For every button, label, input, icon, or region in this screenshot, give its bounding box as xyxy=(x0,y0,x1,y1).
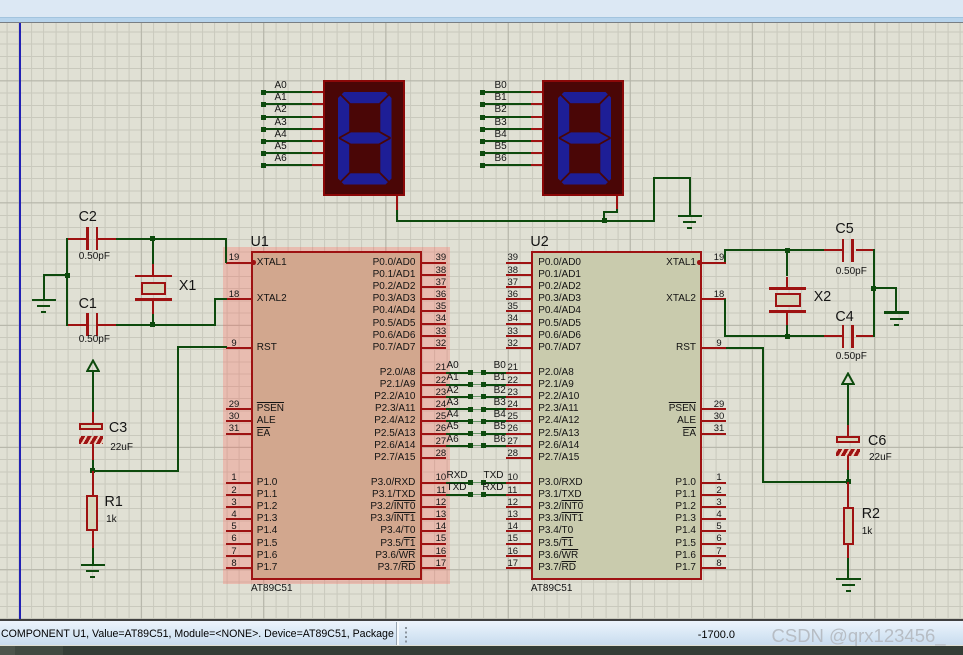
U1 pin 35 xyxy=(421,310,445,312)
node B3 xyxy=(480,397,506,409)
selection highlight around U1 xyxy=(223,247,450,584)
status bar xyxy=(0,621,963,645)
node B5 xyxy=(480,421,506,433)
wire net B2 to DS2 xyxy=(482,116,531,118)
U1 pin 13 xyxy=(421,518,445,520)
U2 pin 23 xyxy=(506,396,530,398)
U2 pin 39 xyxy=(506,262,530,264)
U1 pin 1 xyxy=(226,482,250,484)
U1 pin 9 xyxy=(226,347,250,349)
U2 XTAL1 pin dot xyxy=(697,260,702,265)
U1 pin 17 xyxy=(421,567,445,569)
U1 pin 34 xyxy=(421,323,445,325)
U1 pin 12 xyxy=(421,506,445,508)
U2 pin 12 xyxy=(506,506,530,508)
wire junction to U1 RST xyxy=(92,470,179,472)
U1 pin 38 xyxy=(421,274,445,276)
U2 pin 37 xyxy=(506,286,530,288)
junction at DS2 branch xyxy=(602,218,607,223)
C1 value 0.50pF xyxy=(79,334,110,345)
wire R2 to ground xyxy=(847,558,849,579)
node A3 label xyxy=(275,117,287,129)
U1 pin 31 xyxy=(226,433,250,435)
capacitor C4 xyxy=(824,335,842,337)
wire net B3 to DS2 xyxy=(482,128,531,130)
node B2 xyxy=(480,385,506,397)
U2 pin 21 xyxy=(506,372,530,374)
C6 value 22uF xyxy=(869,452,892,463)
node B0 xyxy=(480,360,506,372)
wire net A2/B2 between U1 and U2 xyxy=(446,396,470,398)
U2 pin 11 xyxy=(506,494,530,496)
7-segment display DS2 digit 8 xyxy=(558,92,612,185)
U2 pin 18 xyxy=(702,298,726,300)
U2 pin 19 xyxy=(702,262,726,264)
capacitor C2 xyxy=(67,238,86,240)
U2 pin 22 xyxy=(506,384,530,386)
node B2 label xyxy=(495,104,507,116)
U2 pin 16 xyxy=(506,555,530,557)
U2 pin 30 xyxy=(702,420,726,422)
wire net A6 to DS1 xyxy=(263,164,312,166)
C3 value 22uF xyxy=(110,442,133,453)
DS2 common pin xyxy=(616,196,618,209)
node A4 xyxy=(447,409,459,421)
node A6 label xyxy=(275,153,287,165)
bottom edge strip xyxy=(0,646,963,655)
U2 pin 7 xyxy=(702,555,726,557)
capacitor C1 xyxy=(67,324,86,326)
node B1 label xyxy=(495,92,507,104)
U1 pin 4 xyxy=(226,518,250,520)
U2 pin 27 xyxy=(506,445,530,447)
U1 pin 30 xyxy=(226,420,250,422)
capacitor C6 (electrolytic) xyxy=(836,436,861,443)
wire C2 to XTAL1 xyxy=(116,238,227,240)
node B6 xyxy=(480,434,506,446)
U2 pin 35 xyxy=(506,310,530,312)
U1 pin 37 xyxy=(421,286,445,288)
U2 pin 34 xyxy=(506,323,530,325)
U2 pin 36 xyxy=(506,298,530,300)
U2 pin 29 xyxy=(702,408,726,410)
wire net RXD between U1 and U2 xyxy=(446,482,470,484)
ground (right osc) xyxy=(884,311,909,314)
wire net B5 to DS2 xyxy=(482,152,531,154)
node A2 xyxy=(447,385,459,397)
X1 reference label xyxy=(179,279,197,294)
U2 pin 28 xyxy=(506,457,530,459)
node RXD xyxy=(474,482,504,494)
U1 pin 15 xyxy=(421,543,445,545)
U2 pin 26 xyxy=(506,433,530,435)
wire net A2 to DS1 xyxy=(263,116,312,118)
wire net B4 to DS2 xyxy=(482,140,531,142)
wire net A5 to DS1 xyxy=(263,152,312,154)
wire net A4 to DS1 xyxy=(263,140,312,142)
wire U2 RST net xyxy=(726,347,763,349)
U2 pin 13 xyxy=(506,518,530,520)
U1 pin 39 xyxy=(421,262,445,264)
U1 pin 22 xyxy=(421,384,445,386)
wire net B1 to DS2 xyxy=(482,103,531,105)
U1 pin 7 xyxy=(226,555,250,557)
wire net A1/B1 between U1 and U2 xyxy=(446,384,470,386)
power arrow (left) xyxy=(86,359,100,373)
node A1 xyxy=(447,372,459,384)
node B6 label xyxy=(495,153,507,165)
status message text xyxy=(1,628,397,641)
ground (left osc) xyxy=(32,299,57,302)
sheet border (blue) xyxy=(19,23,21,619)
node A2 label xyxy=(275,104,287,116)
U1 pin 28 xyxy=(421,457,445,459)
wire C3 to R1 junction xyxy=(92,444,94,460)
ground (R1) xyxy=(81,564,106,567)
junction RST-B xyxy=(846,479,851,484)
C5 value 0.50pF xyxy=(836,266,867,277)
U1 pin 29 xyxy=(226,408,250,410)
U2 value label AT89C51 xyxy=(531,583,573,594)
junction X2 bottom xyxy=(785,334,790,339)
wire power to C3 xyxy=(92,371,94,413)
ground (displays) xyxy=(678,215,703,218)
node TXD xyxy=(474,470,504,482)
watermark xyxy=(772,625,946,646)
U1 pin 32 xyxy=(421,347,445,349)
U1 pin 18 xyxy=(226,298,250,300)
U1 pin 21 xyxy=(421,372,445,374)
U1 pin 16 xyxy=(421,555,445,557)
wire net A3 to DS1 xyxy=(263,128,312,130)
U1 value label AT89C51 xyxy=(251,583,293,594)
U2 pin 5 xyxy=(702,530,726,532)
U2 pin 24 xyxy=(506,408,530,410)
7-segment display DS1 digit 8 xyxy=(338,92,392,185)
U1 reference label xyxy=(251,235,269,250)
U2 pin 14 xyxy=(506,530,530,532)
node B3 label xyxy=(495,117,507,129)
top toolbar strip xyxy=(0,0,963,17)
crystal X1 xyxy=(152,239,154,265)
wire C4 to U2 XTAL2 xyxy=(724,299,726,337)
U2 reference label xyxy=(530,235,548,250)
U2 pin 33 xyxy=(506,335,530,337)
resistor R2 xyxy=(847,482,849,507)
wire C6 to R2 junction xyxy=(847,456,849,470)
X2 reference label xyxy=(814,290,832,305)
U2 pin 1 xyxy=(702,482,726,484)
wire net A4/B4 between U1 and U2 xyxy=(446,420,470,422)
capacitor C5 xyxy=(824,249,842,251)
R1 value 1k xyxy=(106,514,117,525)
U1 pin 26 xyxy=(421,433,445,435)
U1 pin 5 xyxy=(226,530,250,532)
U2 pin 4 xyxy=(702,518,726,520)
U1 pin 6 xyxy=(226,543,250,545)
node A4 label xyxy=(275,129,287,141)
wire right osc vertical xyxy=(873,249,875,337)
node B5 label xyxy=(495,141,507,153)
U1 XTAL1 pin dot xyxy=(251,260,256,265)
status coordinate readout xyxy=(655,629,735,641)
node A0 xyxy=(447,360,459,372)
power arrow (right) xyxy=(841,372,855,386)
wire net B0 to DS2 xyxy=(482,91,531,93)
resistor R1 xyxy=(92,471,94,495)
wire power to C6 xyxy=(847,384,849,425)
node A5 label xyxy=(275,141,287,153)
wire common up to ground xyxy=(653,177,655,222)
C2 value 0.50pF xyxy=(79,251,110,262)
R2 value 1k xyxy=(862,526,873,537)
junction right osc ground xyxy=(871,286,876,291)
status bar splitter dots xyxy=(405,627,407,644)
wire net TXD between U1 and U2 xyxy=(446,494,470,496)
node B4 label xyxy=(495,129,507,141)
node B0 label xyxy=(495,80,507,92)
U2 pin 17 xyxy=(506,567,530,569)
ground (R2) xyxy=(836,578,861,581)
U1 pin 36 xyxy=(421,298,445,300)
node B4 xyxy=(480,409,506,421)
node A5 xyxy=(447,421,459,433)
U2 pin 38 xyxy=(506,274,530,276)
U2 pin 25 xyxy=(506,420,530,422)
U1 pin 8 xyxy=(226,567,250,569)
U2 pin 6 xyxy=(702,543,726,545)
wire osc ground xyxy=(66,238,68,326)
U2 pin 8 xyxy=(702,567,726,569)
wire net A3/B3 between U1 and U2 xyxy=(446,408,470,410)
wire net A0 to DS1 xyxy=(263,91,312,93)
wire C1 to XTAL2 xyxy=(116,324,216,326)
U2 pin 3 xyxy=(702,506,726,508)
wire net A5/B5 between U1 and U2 xyxy=(446,433,470,435)
junction XTAL2 net xyxy=(150,322,155,327)
7-segment display DS1 body xyxy=(323,80,405,196)
wire net A1 to DS1 xyxy=(263,103,312,105)
C4 value 0.50pF xyxy=(836,351,867,362)
U2 pin 31 xyxy=(702,433,726,435)
DS1 common pin xyxy=(396,196,398,210)
U2 pin 10 xyxy=(506,482,530,484)
wire common horizontal xyxy=(396,220,654,222)
U1 pin 19 xyxy=(226,262,250,264)
U1 pin 14 xyxy=(421,530,445,532)
U1 pin 27 xyxy=(421,445,445,447)
junction XTAL1 net xyxy=(150,236,155,241)
wire R1 to ground xyxy=(92,548,94,565)
junction RST-A xyxy=(90,468,95,473)
wire C5 to U2 XTAL1 xyxy=(724,249,726,262)
node A6 xyxy=(447,434,459,446)
U2 pin 32 xyxy=(506,347,530,349)
IC U2 AT89C51 body xyxy=(531,251,702,580)
7-segment display DS2 body xyxy=(542,80,624,196)
U2 pin 15 xyxy=(506,543,530,545)
U1 pin 11 xyxy=(421,494,445,496)
junction X2 top xyxy=(785,248,790,253)
IC U1 AT89C51 body xyxy=(251,251,422,580)
wire net B6 to DS2 xyxy=(482,164,531,166)
node A0 label xyxy=(275,80,287,92)
U1 pin 2 xyxy=(226,494,250,496)
wire net A0/B0 between U1 and U2 xyxy=(446,372,470,374)
U1 pin 3 xyxy=(226,506,250,508)
U2 pin 2 xyxy=(702,494,726,496)
U1 pin 10 xyxy=(421,482,445,484)
node RXD xyxy=(447,470,468,482)
node A1 label xyxy=(275,92,287,104)
status bar panel edge xyxy=(396,622,397,645)
wire DS1 common down xyxy=(396,210,398,222)
U1 pin 23 xyxy=(421,396,445,398)
node TXD xyxy=(447,482,467,494)
wire net A6/B6 between U1 and U2 xyxy=(446,445,470,447)
node A3 xyxy=(447,397,459,409)
U1 pin 25 xyxy=(421,420,445,422)
capacitor C3 (electrolytic) xyxy=(79,423,104,430)
wire DS2 common step xyxy=(616,209,618,213)
wire to ground (right osc) xyxy=(873,287,896,289)
node B1 xyxy=(480,372,506,384)
U2 pin 9 xyxy=(702,347,726,349)
crystal X2 xyxy=(786,250,788,276)
U1 pin 33 xyxy=(421,335,445,337)
status bar separator xyxy=(0,619,963,622)
U1 pin 24 xyxy=(421,408,445,410)
